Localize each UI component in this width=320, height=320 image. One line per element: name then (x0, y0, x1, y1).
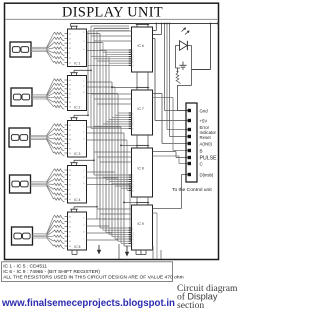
wire IC1 output pin 2 (83, 41, 103, 43)
LED D1 (176, 41, 192, 50)
svg-text:8: 8 (132, 65, 134, 67)
svg-text:11: 11 (69, 134, 72, 136)
wire segment bundle DS1 (31, 47, 47, 51)
wire IC9 input pin 2 (100, 213, 132, 215)
ground symbol (180, 62, 187, 70)
IC8 pin number column (132, 175, 134, 192)
svg-text:1: 1 (83, 80, 85, 82)
wire IC2 Vdd bracket (70, 69, 92, 75)
op-amp IC 3 CD4511 (68, 121, 87, 158)
resistor R5 470ohm (54, 52, 65, 56)
wire IC6 input pin 2 (91, 35, 132, 37)
wire IC4 output pin 3 (83, 183, 130, 185)
connector pin 6 (188, 149, 191, 152)
wire IC5 Vdd bracket (70, 206, 98, 212)
svg-text:1: 1 (83, 170, 85, 172)
wire bottom drop 2 (153, 213, 161, 259)
wire IC4 output pin 1 (83, 170, 115, 172)
svg-text:ALL THE RESISTORS USED IN THIS: ALL THE RESISTORS USED IN THIS CIRCUIT D… (3, 275, 183, 281)
wire IC6 input pin 1 (88, 30, 132, 32)
svg-text:9: 9 (69, 144, 71, 146)
wire IC6 parallel output pins (88, 50, 132, 65)
wire IC5 output pin 3 (83, 231, 112, 233)
resistor R13 470ohm (54, 101, 65, 105)
svg-text:7: 7 (83, 238, 85, 240)
wire bus vertical V8 (108, 57, 110, 235)
svg-text:6: 6 (83, 92, 85, 94)
svg-text:C: C (200, 162, 204, 167)
wire connector feed F2 (166, 23, 187, 130)
svg-text:IC 1 - IC 5 : CD4511: IC 1 - IC 5 : CD4511 (3, 264, 47, 270)
wire resistor top feed (177, 68, 179, 73)
svg-text:14: 14 (69, 63, 72, 65)
connector pin 8 (188, 162, 191, 165)
wire IC3 Vdd bracket (70, 114, 89, 120)
svg-text:11: 11 (69, 43, 72, 45)
svg-text:8: 8 (132, 190, 134, 192)
svg-text:12: 12 (69, 221, 72, 223)
wire bus vertical V13 (123, 133, 125, 246)
wire +V top rail (71, 22, 220, 69)
wire cascade IC8 to IC9 (137, 197, 148, 202)
wire segment bundle DS2 (32, 95, 47, 99)
svg-text:2: 2 (83, 85, 85, 87)
node J1 (177, 71, 179, 73)
wire IC5 output pin 1 (83, 217, 106, 219)
resistor R16 470ohm (54, 128, 65, 132)
svg-text:6: 6 (83, 138, 85, 140)
wire bus vertical V3 (93, 28, 95, 175)
wire cascade IC7 to IC8 (137, 135, 148, 145)
wire bus vertical V9 (111, 82, 113, 237)
wire segment bundle DS4 (31, 182, 47, 186)
wire bus vertical V6 (102, 43, 104, 231)
wire IC9 parallel output pins (100, 228, 132, 243)
svg-text:Reset: Reset (200, 135, 212, 140)
7-segment display DS4 (10, 175, 31, 193)
resistor R6 470ohm (54, 56, 65, 60)
wire IC5 output pin 2 (83, 224, 109, 226)
wire IC7 Vcc bracket (111, 87, 149, 91)
svg-text:13: 13 (69, 80, 72, 82)
wire IC2 output pin 3 (83, 92, 118, 94)
wire IC1 output pin 1 (83, 32, 100, 34)
svg-text:10: 10 (69, 139, 72, 141)
resistor R8 470ohm (54, 79, 65, 83)
schematic frame border (5, 3, 219, 259)
svg-text:A(IN0): A(IN0) (200, 141, 213, 146)
resistor R3 470ohm (54, 42, 65, 46)
op-amp IC 8 74HC595 shift register (132, 148, 153, 197)
svg-text:15: 15 (69, 102, 72, 104)
svg-text:www.finalsemeceprojects.blogsp: www.finalsemeceprojects.blogspot.in (1, 298, 175, 309)
svg-text:13: 13 (69, 125, 72, 127)
resistor R26 470ohm (54, 188, 65, 192)
svg-text:10: 10 (69, 48, 72, 50)
svg-text:12: 12 (69, 130, 72, 132)
wire segment bundle DS5 (33, 234, 47, 238)
wire IC4 output pin 2 (83, 176, 118, 178)
svg-text:IC 8: IC 8 (138, 167, 144, 171)
wire fan-out DS3 (47, 125, 54, 153)
resistor R36 470ohm (176, 73, 180, 84)
wire bus vertical V12 (120, 127, 122, 243)
wire IC6 Vcc bracket (136, 24, 149, 28)
connector pin 9 (188, 173, 191, 176)
LED D1 light arrows (182, 28, 190, 35)
wire cascade IC6 to IC7 (137, 72, 148, 87)
svg-text:9: 9 (69, 98, 71, 100)
wire bus vertical V4 (96, 31, 98, 219)
wire LED anode drop (175, 46, 177, 69)
wire connector feed F1 (164, 23, 188, 111)
wire LED loop bottom (178, 85, 192, 87)
wire IC9 bottom pins (136, 250, 146, 255)
svg-text:10: 10 (69, 93, 72, 95)
op-amp IC 6 74HC595 shift register (132, 27, 153, 72)
wire IC2 output pin 2 (83, 85, 115, 87)
svg-text:13: 13 (69, 170, 72, 172)
wire fan-out DS2 (47, 80, 54, 107)
svg-text:IC 7: IC 7 (138, 107, 144, 111)
wire bus vertical V10 (114, 87, 116, 239)
wire IC7 input pin 1 (91, 93, 132, 95)
resistor R12 470ohm (54, 96, 65, 100)
resistor R30 470ohm (54, 220, 65, 224)
svg-text:IC 6: IC 6 (138, 44, 144, 48)
IC7 pin number column (132, 113, 134, 130)
resistor R33 470ohm (54, 235, 65, 239)
wire LED cathode drop (191, 46, 193, 86)
svg-text:2: 2 (83, 41, 85, 43)
wire resistor to connector (178, 85, 188, 111)
resistor R18 470ohm (54, 138, 65, 142)
wire IC7 input pin 3 (97, 103, 132, 105)
wire IC9 input pin 3 (103, 218, 132, 220)
resistor R21 470ohm (54, 152, 65, 156)
IC6 pin number column (132, 50, 134, 67)
wire fan-out DS5 (47, 217, 54, 247)
svg-text:15: 15 (69, 58, 72, 60)
wire IC1 Vdd bracket (70, 24, 77, 30)
wire fan-out DS4 (47, 170, 54, 199)
wire IC7 serial pins (153, 94, 188, 151)
op-amp IC 4 CD4511 (68, 166, 87, 204)
svg-text:IC 3: IC 3 (74, 152, 80, 156)
svg-text:2: 2 (83, 131, 85, 133)
resistor R4 470ohm (54, 47, 65, 51)
connector pin 3 (188, 128, 191, 131)
wire bus vertical V15 (129, 185, 131, 241)
op-amp IC 1 CD4511 (68, 29, 87, 67)
wire IC4 Vdd bracket (70, 159, 95, 165)
resistor R15 470ohm (54, 124, 65, 128)
svg-text:13: 13 (69, 217, 72, 219)
op-amp IC 5 CD4511 (68, 212, 87, 250)
svg-text:1: 1 (83, 32, 85, 34)
wire top bus 4 (97, 30, 129, 32)
resistor R20 470ohm (54, 147, 65, 151)
connector pin 4 (188, 135, 191, 138)
connector J2 to control unit (186, 103, 197, 182)
wire bus vertical V1 (87, 31, 89, 116)
wire top bus 3 (94, 27, 129, 29)
resistor R32 470ohm (54, 230, 65, 234)
svg-text:+5V: +5V (200, 118, 208, 123)
resistor R24 470ohm (54, 178, 65, 182)
svg-text:Gnd: Gnd (200, 108, 209, 113)
svg-text:14: 14 (69, 153, 72, 155)
svg-text:14: 14 (69, 107, 72, 109)
wire bus vertical V11 (117, 94, 119, 242)
svg-text:6: 6 (83, 231, 85, 233)
wire IC8 input pin 2 (97, 156, 132, 158)
svg-text:8: 8 (132, 243, 134, 245)
wire bus vertical V2 (90, 26, 92, 128)
wire ground link (176, 67, 181, 69)
wire fan-out DS1 (47, 34, 54, 63)
ground arrow IC9 (125, 246, 129, 257)
svg-text:6: 6 (83, 183, 85, 185)
svg-text:2: 2 (83, 176, 85, 178)
svg-text:2: 2 (83, 224, 85, 226)
op-amp IC 9 74HC595 shift register (132, 205, 153, 250)
wire IC2 output pin 1 (83, 80, 112, 82)
wire IC1 output pin 3 (83, 49, 106, 51)
7-segment display DS3 (9, 128, 30, 147)
connector pin 2 (188, 119, 191, 122)
connector pin 1 (188, 109, 191, 112)
svg-text:11: 11 (69, 226, 72, 228)
svg-text:11: 11 (69, 89, 72, 91)
wire bottom drop 1 (118, 244, 120, 259)
svg-text:12: 12 (69, 84, 72, 86)
wire connector feed F3 (169, 23, 188, 137)
7-segment display DS5 (12, 227, 33, 245)
connector pin 7 (188, 156, 191, 159)
op-amp IC 7 74HC595 shift register (132, 90, 153, 135)
wire bus vertical V14 (126, 140, 128, 190)
wire IC7 parallel output pins (91, 113, 132, 128)
wire IC8 input pin 3 (100, 161, 132, 163)
svg-text:To the Control unit: To the Control unit (172, 187, 212, 193)
svg-text:14: 14 (69, 246, 72, 248)
ground arrow mesh (97, 245, 101, 255)
wire IC5 bottom pins (72, 250, 77, 255)
svg-text:1: 1 (83, 217, 85, 219)
resistor R7 470ohm (54, 61, 65, 65)
resistor R10 470ohm (54, 88, 65, 92)
wire IC3 output pin 1 (83, 125, 121, 127)
wire bus vertical V7 (105, 51, 107, 233)
connector pin 5 (188, 142, 191, 145)
resistor R22 470ohm (54, 169, 65, 173)
7-segment display DS1 (10, 42, 31, 57)
svg-text:IC 6 - IC 9 : 74965 - (BIT SHI: IC 6 - IC 9 : 74965 - (BIT SHIFT REGISTE… (3, 269, 100, 275)
svg-text:14: 14 (69, 199, 72, 201)
svg-text:11: 11 (69, 180, 72, 182)
resistor R27 470ohm (54, 193, 65, 197)
svg-text:15: 15 (69, 241, 72, 243)
wire IC3 output pin 2 (83, 131, 124, 133)
svg-text:10: 10 (69, 185, 72, 187)
svg-text:section: section (177, 300, 204, 311)
resistor R19 470ohm (54, 142, 65, 146)
svg-text:IC 9: IC 9 (138, 222, 144, 226)
resistor R23 470ohm (54, 174, 65, 178)
resistor R9 470ohm (54, 83, 65, 87)
resistor R14 470ohm (54, 105, 65, 109)
IC9 pin number column (132, 228, 134, 245)
svg-text:12: 12 (69, 38, 72, 40)
resistor R28 470ohm (54, 198, 65, 202)
wire IC9 input pin 1 (97, 208, 132, 210)
wire IC9 serial pins (153, 175, 188, 214)
svg-text:IC 5: IC 5 (74, 245, 80, 249)
wire segment bundle DS3 (30, 135, 47, 139)
resistor R2 470ohm (54, 37, 65, 41)
svg-text:10: 10 (69, 231, 72, 233)
resistor R34 470ohm (54, 240, 65, 244)
svg-text:15: 15 (69, 194, 72, 196)
svg-text:1: 1 (83, 125, 85, 127)
resistor R11 470ohm (54, 92, 65, 96)
resistor R29 470ohm (54, 215, 65, 219)
svg-text:DISPLAY UNIT: DISPLAY UNIT (62, 5, 163, 21)
svg-text:15: 15 (69, 148, 72, 150)
wire IC3 output pin 3 (83, 138, 127, 140)
wire IC8 input pin 1 (94, 151, 132, 153)
svg-text:D(insb): D(insb) (200, 172, 214, 177)
svg-text:B: B (200, 148, 203, 153)
wire IC8 parallel output pins (94, 175, 132, 190)
wire IC7 input pin 2 (94, 98, 132, 100)
7-segment display DS2 (11, 88, 32, 106)
notes box (2, 262, 173, 282)
svg-text:9: 9 (69, 189, 71, 191)
op-amp IC 2 CD4511 (68, 76, 87, 111)
wire bus stub V15 end (130, 239, 132, 241)
wire IC6 serial pins (153, 23, 188, 121)
wire bus vertical V5 (99, 34, 101, 229)
wire IC5 output pin 4 (83, 238, 118, 240)
svg-text:8: 8 (132, 128, 134, 130)
resistor R31 470ohm (54, 225, 65, 229)
resistor R25 470ohm (54, 183, 65, 187)
svg-text:IC 2: IC 2 (74, 106, 80, 110)
wire IC6 input pin 3 (94, 40, 132, 42)
title separator line (5, 18, 217, 20)
wire top bus 2 (91, 25, 129, 27)
wire IC9 Vcc bracket (123, 202, 149, 206)
svg-text:9: 9 (69, 236, 71, 238)
resistor R1 470ohm (54, 32, 65, 36)
svg-text:12: 12 (69, 175, 72, 177)
wire IC8 Vcc bracket (120, 145, 149, 149)
svg-text:9: 9 (69, 53, 71, 55)
svg-text:IC 4: IC 4 (74, 198, 80, 202)
svg-text:6: 6 (83, 49, 85, 51)
resistor R17 470ohm (54, 133, 65, 137)
svg-text:13: 13 (69, 34, 72, 36)
resistor R35 470ohm (54, 245, 65, 249)
wire IC8 serial pins (153, 152, 188, 164)
svg-text:IC 1: IC 1 (74, 62, 80, 66)
wire bus stub V13 end (124, 245, 132, 247)
